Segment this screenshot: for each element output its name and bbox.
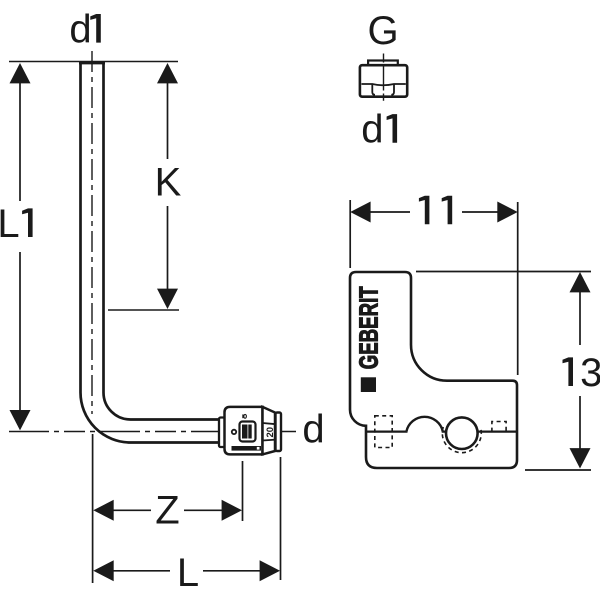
svg-text:d: d	[69, 8, 91, 52]
svg-text:Z: Z	[155, 489, 179, 533]
svg-text:G: G	[367, 9, 398, 53]
L extension line right	[280, 457, 282, 580]
13 extension line top	[416, 271, 591, 273]
dimension Z	[93, 489, 242, 533]
nut facet left divider	[372, 84, 375, 95]
top extension line	[9, 61, 178, 63]
GEBERIT logo square	[361, 377, 376, 392]
bracket parting line	[366, 431, 408, 433]
11 extension line right	[517, 202, 519, 375]
svg-text:L: L	[177, 551, 199, 595]
fitting bottom strip	[232, 446, 262, 451]
fitting collar	[219, 418, 225, 448]
pipe vertical centerline	[91, 51, 93, 414]
fitting dot	[232, 430, 236, 434]
Z extension line	[242, 461, 244, 521]
nut facet line	[362, 84, 406, 85]
dashed square right	[492, 422, 506, 432]
svg-text:GEBERIT: GEBERIT	[353, 286, 383, 369]
dimension 11	[350, 196, 518, 225]
dimension K	[155, 63, 182, 309]
svg-text:d: d	[361, 108, 383, 152]
dimension L1	[0, 63, 33, 430]
svg-text:L: L	[0, 202, 20, 246]
nut facet right divider	[391, 84, 394, 95]
fitting nut facet line lower	[263, 439, 277, 442]
bracket outline	[350, 272, 517, 468]
svg-text:3: 3	[580, 351, 600, 395]
nut icon body	[360, 65, 407, 97]
window bar 1	[242, 425, 248, 439]
13 extension line bottom	[525, 469, 591, 471]
fitting end cap	[276, 413, 282, 452]
dashed square left	[375, 416, 392, 448]
window bar 2	[248, 425, 251, 439]
svg-text:K: K	[155, 161, 182, 205]
fitting indicator window	[240, 422, 256, 442]
strip square	[257, 447, 260, 450]
pipe L-bend outline	[79, 62, 219, 443]
nut icon centerline	[383, 54, 385, 101]
clamp bump	[406, 417, 442, 432]
svg-text:d: d	[302, 408, 324, 452]
11 extension line left	[349, 200, 351, 268]
fitting top mark	[242, 414, 243, 418]
dashed arc under circle	[442, 427, 481, 453]
dimension L	[93, 551, 280, 595]
fitting nut facet line upper	[263, 423, 277, 424]
fitting taper nut	[263, 407, 276, 455]
Z/L extension line left	[92, 434, 94, 583]
nut icon collar	[368, 61, 398, 66]
svg-text:20: 20	[265, 427, 276, 438]
dimension 13	[563, 272, 600, 469]
pipe horizontal centerline	[9, 431, 296, 433]
svg-text:GEBERIT: GEBERIT	[233, 447, 254, 451]
K bottom extension line	[108, 309, 179, 311]
clamp circle	[446, 417, 478, 449]
fitting body	[225, 407, 263, 455]
